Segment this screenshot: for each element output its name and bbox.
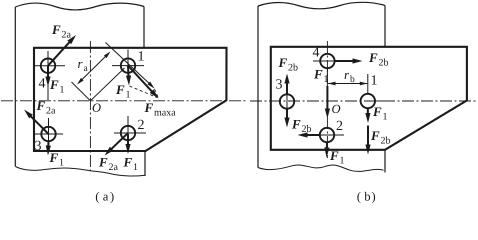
column bar (b) wavy bottom break line bbox=[258, 165, 384, 171]
label F1 at bolt 3 (a) bbox=[49, 153, 63, 165]
parallelogram dashed line from F1 tip (a) bbox=[130, 86, 158, 98]
dimension r_b arrow bbox=[328, 83, 367, 85]
column bar (a) wavy bottom break line bbox=[16, 167, 146, 176]
crosshair bolt 1 (a) bbox=[112, 65, 144, 67]
label F2b above bolt 3 (b) bbox=[278, 58, 297, 70]
vertical centerline (a) through O bbox=[89, 41, 91, 171]
bolt 1 circle (a) bbox=[121, 58, 135, 72]
column bar (a) left edge bbox=[14, 7, 16, 167]
crosshair bolt 2 (b) bbox=[310, 134, 344, 136]
force F2a at bolt 2 (a) bbox=[110, 133, 128, 151]
bracket plate (b) outline bbox=[271, 47, 467, 150]
label 1 (a) bbox=[139, 51, 144, 60]
column bar (b) left edge bbox=[257, 6, 259, 168]
radius line O to bolt 1 (a) bbox=[90, 68, 124, 101]
force F2a line of action at bolt 1 (a) bbox=[106, 43, 150, 84]
force F2b up at bolt 3 (b) bbox=[286, 81, 288, 96]
label O (b) bbox=[332, 105, 340, 113]
force F2b at bolt 4 (b) bbox=[335, 60, 356, 62]
label 3 (b) bbox=[276, 79, 282, 88]
label F1 at bolt 2 (a) bbox=[123, 158, 137, 170]
label 2 (a) bbox=[138, 120, 144, 129]
label r_b bbox=[345, 73, 355, 82]
force F1 at bolt 1 (b) bbox=[367, 108, 369, 116]
column bar (a) right edge below plate bbox=[144, 151, 146, 176]
label F2b at bolt 4 (b) bbox=[369, 53, 388, 65]
parallelogram dashed line from F2a tip (a) bbox=[155, 89, 159, 97]
extension line above bolt 1 for r_b bbox=[367, 74, 369, 94]
horizontal centerline (a) through O bbox=[1, 100, 248, 102]
label O (a) bbox=[93, 104, 101, 112]
label F2a at bolt 4 (a) bbox=[52, 25, 71, 37]
label 3 (a) bbox=[35, 141, 41, 150]
label F1 at bolt 2 (b) bbox=[330, 151, 344, 163]
crosshair bolt 2 (a) bbox=[114, 132, 146, 134]
bracket plate (a) outline bbox=[34, 48, 227, 151]
label F2a at bolt 3 (a) bbox=[36, 101, 55, 113]
caption (a) bbox=[96, 192, 114, 203]
force F2b at bolt 1 (b) bbox=[367, 126, 369, 148]
bolt 1 circle (b) bbox=[361, 94, 375, 108]
caption (b) bbox=[357, 192, 375, 203]
bolt 2 circle (a) bbox=[121, 126, 135, 140]
force F2b down at bolt 3 (b) bbox=[286, 108, 288, 121]
bolt 3 circle (b) bbox=[280, 94, 294, 108]
force F1 at bolt 1 (a) bbox=[127, 66, 130, 79]
bolt 4 circle (a) bbox=[41, 58, 55, 72]
force F2a at bolt 4 (a) bbox=[48, 40, 71, 65]
label F2a at bolt 2 (a) bbox=[99, 158, 118, 170]
extension line below bolt 4 for r_b bbox=[326, 68, 328, 84]
force F1 at bolt 4 (a) bbox=[47, 66, 49, 80]
label F1 at bolt 1 (b) bbox=[373, 107, 387, 119]
label F2b below bolt 3 (b) bbox=[292, 120, 311, 132]
dimension r_a arrow bbox=[79, 53, 110, 83]
vertical centerline (b) through bolts 4 and 2 bbox=[326, 41, 328, 158]
crosshair bolt 3 (b) bbox=[286, 88, 288, 116]
label F2b at bolt 1 (b) bbox=[371, 131, 390, 143]
bolt 4 circle (b) bbox=[320, 54, 334, 68]
label 1 (b) bbox=[372, 75, 377, 84]
label F1 at bolt 1 (a) bbox=[116, 85, 130, 97]
label F1 at bolt 4 (a) bbox=[50, 80, 64, 92]
horizontal centerline (b) through bolts 3 and 1 bbox=[250, 100, 476, 102]
force F2a at bolt 3 (a) bbox=[29, 114, 49, 134]
extension line through O for r_a bbox=[72, 82, 91, 101]
column bar (b) right edge below plate bbox=[384, 150, 386, 173]
resultant force Fmaxa at bolt 1 (a) bbox=[128, 66, 154, 94]
force F1 at bolt 3 (a) bbox=[47, 141, 49, 149]
force F1 at bolt 2 (b) bbox=[326, 142, 328, 151]
label 4 (b) bbox=[313, 47, 320, 56]
force F1 at bolt 2 (a) bbox=[127, 134, 129, 147]
force F1 from bolt 4 through O (b) bbox=[326, 86, 328, 112]
crosshair bolt 4 (a) bbox=[34, 65, 65, 67]
label Fmaxa (a) bbox=[144, 103, 175, 115]
column bar (a) right edge above plate bbox=[143, 7, 145, 48]
bolt 2 circle (b) bbox=[320, 128, 334, 142]
bolt 3 circle (a) bbox=[41, 127, 55, 141]
label r_a bbox=[78, 62, 88, 71]
label F1 at bolt 4 (b) bbox=[314, 70, 328, 82]
column bar (a) wavy top break line bbox=[15, 3, 144, 10]
force F2b left at bolt 2 (b) bbox=[305, 134, 320, 136]
label 4 (a) bbox=[39, 78, 46, 87]
crosshair bolt 4 (b) bbox=[313, 60, 342, 62]
crosshair bolt 3 (a) bbox=[34, 133, 63, 135]
label 2 (b) bbox=[337, 121, 343, 130]
column bar (b) wavy top break line bbox=[258, 2, 385, 8]
crosshair bolt 1 (b) bbox=[374, 100, 391, 102]
column bar (b) right edge above plate bbox=[384, 6, 386, 47]
